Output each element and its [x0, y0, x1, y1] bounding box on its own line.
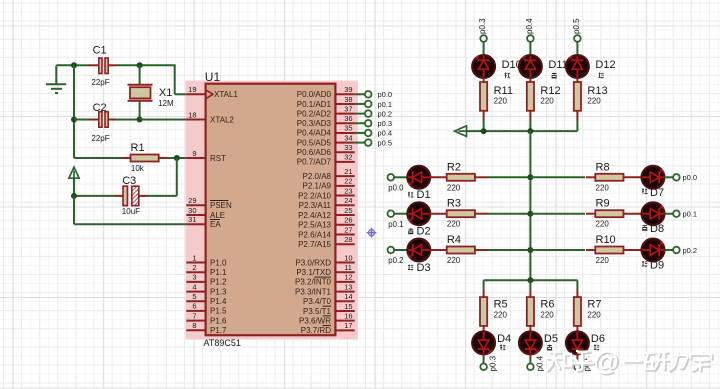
junction node xtal top — [137, 62, 143, 68]
svg-text:p0.0: p0.0 — [378, 90, 393, 99]
svg-text:P3.6/WR: P3.6/WR — [299, 316, 331, 325]
pin R1 left — [122, 157, 131, 159]
svg-text:p0.4: p0.4 — [535, 355, 544, 371]
LED D9 — [642, 239, 665, 262]
wire down to resistor — [483, 280, 485, 290]
svg-text:24: 24 — [344, 196, 352, 205]
svg-text:P1.0: P1.0 — [210, 258, 227, 267]
wire to terminal — [529, 359, 531, 364]
svg-text:D2: D2 — [417, 226, 431, 238]
LED D5 — [519, 332, 542, 355]
pin resistor left — [586, 249, 595, 251]
svg-text:22pF: 22pF — [91, 134, 109, 143]
wire crystal node to XTAL1 corner — [140, 64, 176, 66]
svg-text:P3.2/INT0: P3.2/INT0 — [295, 278, 332, 287]
pin 2 (P1.1) — [186, 263, 227, 277]
pin 12 (P3.2/INT0) — [295, 273, 355, 287]
wire to terminal — [483, 359, 485, 364]
label green colour char — [598, 73, 603, 79]
terminal p0.1 — [365, 101, 372, 108]
resistor R6 — [527, 297, 534, 326]
terminal p0.3 (top) — [480, 35, 487, 42]
pin 25 (P2.4/A12) — [298, 206, 355, 220]
svg-text:10uF: 10uF — [122, 207, 140, 216]
svg-text:P2.3/A11: P2.3/A11 — [299, 201, 332, 210]
pin 9 (RST) — [186, 149, 226, 163]
pin LED-resistor — [529, 78, 531, 82]
svg-text:D7: D7 — [650, 187, 664, 199]
pin 17 (P3.7/RD) — [301, 321, 355, 335]
svg-text:220: 220 — [596, 220, 610, 229]
LED D10 — [472, 55, 495, 78]
svg-text:220: 220 — [494, 311, 508, 320]
wire bus to resistor — [530, 213, 585, 215]
wire R1 to RST — [167, 157, 186, 159]
svg-text:D6: D6 — [591, 333, 605, 345]
svg-text:P2.1/A9: P2.1/A9 — [303, 182, 332, 191]
wire P0.5 to terminal — [355, 142, 365, 144]
svg-text:p0.2: p0.2 — [378, 109, 393, 118]
svg-text:C3: C3 — [122, 175, 136, 187]
junction node xtal bottom — [137, 117, 143, 123]
svg-text:p0.3: p0.3 — [378, 119, 393, 128]
svg-text:EA: EA — [210, 220, 221, 229]
wire centre bus vertical — [529, 131, 531, 280]
svg-text:33: 33 — [344, 143, 352, 152]
wire to XTAL1 pin — [175, 93, 187, 95]
pin resistor bottom — [529, 111, 531, 120]
pin C3 left — [115, 195, 123, 197]
svg-text:p0.4: p0.4 — [525, 18, 534, 34]
svg-text:220: 220 — [596, 256, 610, 265]
label green colour char — [594, 345, 599, 351]
wire crystal to XTAL2 node — [139, 101, 141, 120]
pin resistor top — [529, 290, 531, 297]
svg-text:ALE: ALE — [210, 211, 225, 220]
wire terminal to LED — [394, 213, 408, 215]
wire C1 to crystal node — [116, 64, 140, 66]
wire P0.0 to terminal — [355, 93, 365, 95]
svg-text:3: 3 — [192, 273, 196, 282]
pin resistor right — [475, 176, 487, 178]
terminal p0.2 — [365, 110, 372, 117]
pin 18 (XTAL2) — [186, 110, 234, 124]
svg-text:23: 23 — [344, 186, 352, 195]
pin R1 right — [159, 157, 167, 159]
svg-text:P2.0/A8: P2.0/A8 — [303, 172, 332, 181]
wire to EA pin — [74, 223, 186, 225]
svg-text:P2.2/A10: P2.2/A10 — [298, 191, 331, 200]
LED D4 — [472, 332, 495, 355]
svg-text:D4: D4 — [497, 333, 511, 345]
svg-text:P1.7: P1.7 — [210, 326, 227, 335]
svg-text:D8: D8 — [650, 223, 664, 235]
capacitor C3 (electrolytic) — [123, 186, 128, 205]
svg-text:220: 220 — [447, 183, 461, 192]
pin 14 (P3.4/T0) — [303, 292, 355, 306]
wire gnd rail — [73, 65, 75, 158]
svg-text:7: 7 — [192, 311, 196, 320]
junction vcc node — [71, 193, 77, 199]
pin resistor to LED — [576, 326, 578, 332]
wire vcc node down — [73, 196, 75, 224]
terminal p0.1 (left) — [388, 210, 395, 217]
svg-text:P0.3/AD3: P0.3/AD3 — [297, 119, 332, 128]
svg-text:25: 25 — [344, 206, 352, 215]
pin resistor right — [475, 249, 487, 251]
pin LED to resistor — [430, 249, 447, 251]
svg-text:29: 29 — [188, 196, 196, 205]
svg-text:XTAL2: XTAL2 — [210, 115, 234, 124]
pin 29 (PSEN) — [186, 196, 232, 210]
pin resistor right — [475, 213, 487, 215]
svg-text:9: 9 — [192, 149, 196, 158]
svg-text:p0.2: p0.2 — [683, 246, 698, 255]
svg-text:10k: 10k — [131, 164, 145, 173]
svg-text:D1: D1 — [417, 189, 431, 201]
op U1 chip body AT89C51 — [206, 84, 336, 336]
pin 10 (P3.0/RXD) — [295, 253, 354, 267]
pin resistor left — [586, 213, 595, 215]
pin 35 (P0.4/AD4) — [297, 124, 355, 138]
LED D1 — [407, 166, 430, 189]
wire to terminal — [576, 359, 578, 364]
label yellow colour char — [408, 228, 413, 234]
pin 8 (P1.7) — [186, 321, 227, 335]
svg-text:p0.4: p0.4 — [378, 129, 393, 138]
resistor R3 — [447, 210, 475, 217]
pin 1 (P1.0) — [186, 253, 227, 267]
svg-text:P1.1: P1.1 — [210, 268, 227, 277]
pin LED to resistor — [430, 176, 447, 178]
pin 7 (P1.6) — [186, 311, 227, 325]
pin 21 (P2.0/A8) — [303, 167, 355, 181]
svg-text:P1.3: P1.3 — [210, 287, 227, 296]
pin resistor to LED — [624, 213, 642, 215]
svg-text:P1.5: P1.5 — [210, 307, 227, 316]
wire C3 to vcc node — [74, 195, 115, 197]
pin resistor top — [576, 290, 578, 297]
svg-text:P0.5/AD5: P0.5/AD5 — [297, 138, 332, 147]
resistor R10 — [595, 247, 623, 254]
capacitor C2 — [99, 112, 102, 128]
junction bus — [527, 247, 533, 253]
pin 24 (P2.3/A11) — [299, 196, 355, 210]
wire node to crystal — [139, 65, 141, 85]
svg-text:R9: R9 — [596, 198, 610, 210]
svg-text:220: 220 — [587, 311, 601, 320]
junction top bus col2 — [527, 128, 533, 134]
svg-text:D9: D9 — [650, 260, 664, 272]
junction node gnd rail — [71, 62, 77, 68]
svg-text:P0.2/AD2: P0.2/AD2 — [297, 109, 332, 118]
svg-text:220: 220 — [494, 97, 508, 106]
svg-text:R13: R13 — [587, 85, 607, 97]
wire down to XTAL1 — [174, 65, 176, 94]
LED D8 — [642, 202, 665, 225]
svg-text:18: 18 — [188, 110, 196, 119]
svg-text:31: 31 — [188, 215, 196, 224]
svg-text:35: 35 — [344, 124, 352, 133]
LED D12 — [566, 55, 589, 78]
resistor R8 — [595, 174, 623, 181]
pin 36 (P0.3/AD3) — [297, 114, 355, 128]
wire power to node — [73, 178, 75, 196]
svg-text:1: 1 — [192, 253, 196, 262]
svg-text:p0.0: p0.0 — [388, 184, 404, 193]
resistor R7 — [574, 297, 581, 326]
svg-text:2: 2 — [192, 263, 196, 272]
ground — [46, 65, 66, 93]
svg-text:p0.1: p0.1 — [683, 210, 698, 219]
resistor R2 — [447, 174, 475, 181]
svg-text:14: 14 — [344, 292, 352, 301]
resistor R11 — [480, 82, 487, 111]
pin LED-resistor — [483, 78, 485, 82]
svg-text:R3: R3 — [447, 198, 461, 210]
svg-text:39: 39 — [344, 85, 352, 94]
wire to terminal — [664, 176, 673, 178]
svg-text:220: 220 — [540, 97, 554, 106]
pin 32 (P0.7/AD7) — [297, 153, 355, 167]
svg-text:32: 32 — [344, 153, 352, 162]
svg-text:p0.0: p0.0 — [683, 173, 698, 182]
svg-text:5: 5 — [192, 292, 196, 301]
wire rail to R1 — [74, 157, 122, 159]
label green colour char — [408, 265, 413, 271]
pin 34 (P0.5/AD5) — [297, 133, 355, 147]
terminal p0.4 (bottom) — [527, 364, 534, 371]
svg-text:4: 4 — [192, 282, 196, 291]
pin 6 (P1.5) — [186, 302, 227, 316]
svg-text:37: 37 — [344, 104, 352, 113]
svg-text:U1: U1 — [205, 70, 221, 84]
svg-text:220: 220 — [540, 311, 554, 320]
svg-text:R4: R4 — [447, 234, 461, 246]
wire gnd to node — [56, 64, 74, 66]
power terminal (left arrow) — [455, 126, 467, 137]
svg-text:36: 36 — [344, 114, 352, 123]
power terminal (VCC) — [69, 167, 79, 178]
label yellow colour char — [642, 225, 647, 231]
resistor R1 — [131, 155, 159, 162]
pin C1 right — [107, 64, 116, 66]
svg-text:p0.5: p0.5 — [378, 138, 393, 147]
junction bottom bus — [527, 277, 533, 283]
origin crosshair marker — [367, 228, 377, 238]
wire C2 to node — [116, 119, 140, 121]
terminal p0.0 (left) — [388, 174, 395, 181]
svg-text:p0.3: p0.3 — [478, 18, 487, 34]
label yellow colour char — [547, 345, 552, 351]
svg-text:C2: C2 — [93, 102, 107, 114]
watermark zhihu — [549, 352, 573, 372]
svg-text:P2.5/A13: P2.5/A13 — [298, 221, 331, 230]
svg-text:P3.3/INT1: P3.3/INT1 — [295, 287, 332, 296]
wire top bus horizontal — [466, 130, 578, 132]
resistor R12 — [527, 82, 534, 111]
wire terminal to LED — [483, 42, 485, 56]
svg-text:P0.0/AD0: P0.0/AD0 — [297, 90, 332, 99]
resistor R9 — [595, 210, 623, 217]
pin resistor to LED — [624, 176, 642, 178]
svg-text:R8: R8 — [596, 161, 610, 173]
svg-text:p0.5: p0.5 — [572, 18, 581, 34]
wire P0.1 to terminal — [355, 103, 365, 105]
label red colour char — [642, 188, 648, 194]
svg-text:P3.5/T1: P3.5/T1 — [303, 307, 332, 316]
svg-text:13: 13 — [344, 282, 352, 291]
svg-text:P1.4: P1.4 — [210, 297, 227, 306]
wire bus to resistor — [530, 176, 585, 178]
wire bottom bus horizontal — [484, 279, 578, 281]
pin resistor top — [483, 290, 485, 297]
pin 38 (P0.1/AD1) — [297, 95, 355, 109]
terminal p0.1 (right) — [673, 210, 680, 217]
svg-text:15: 15 — [344, 302, 352, 311]
terminal p0.5 — [365, 139, 372, 146]
resistor R13 — [574, 82, 581, 111]
svg-text:AT89C51: AT89C51 — [204, 338, 241, 348]
wire rail to C2 — [74, 119, 89, 121]
wire terminal to LED — [394, 249, 408, 251]
wire resistor to bus — [576, 120, 578, 131]
wire to terminal — [664, 213, 673, 215]
svg-text:P0.6/AD6: P0.6/AD6 — [297, 148, 332, 157]
pin 33 (P0.6/AD6) — [297, 143, 355, 157]
pin C2 left — [89, 119, 99, 121]
capacitor C1 — [99, 58, 102, 74]
svg-text:28: 28 — [344, 235, 352, 244]
pin C1 left — [89, 64, 99, 66]
svg-text:10: 10 — [344, 253, 352, 262]
pin 23 (P2.2/A10) — [298, 186, 355, 200]
svg-text:P2.6/A14: P2.6/A14 — [298, 230, 331, 239]
LED D3 — [407, 239, 430, 262]
terminal p0.2 (right) — [673, 247, 680, 254]
terminal p0.3 — [365, 120, 372, 127]
terminal p0.5 (bottom) — [574, 364, 581, 371]
junction rail C2 — [71, 117, 77, 123]
label red colour char — [408, 192, 414, 198]
pin C2 right — [107, 119, 116, 121]
terminal p0.2 (left) — [388, 247, 395, 254]
wire to XTAL2 pin — [140, 119, 187, 121]
svg-text:220: 220 — [447, 256, 461, 265]
LED D2 — [407, 202, 430, 225]
svg-text:34: 34 — [344, 133, 352, 142]
svg-text:p0.3: p0.3 — [489, 355, 498, 371]
svg-text:P2.4/A12: P2.4/A12 — [298, 211, 331, 220]
svg-text:220: 220 — [447, 220, 461, 229]
svg-text:12: 12 — [344, 273, 352, 282]
svg-text:D3: D3 — [417, 262, 431, 274]
svg-text:D12: D12 — [595, 59, 615, 71]
pin LED to resistor — [430, 213, 447, 215]
svg-text:P3.4/T0: P3.4/T0 — [303, 297, 332, 306]
pin 3 (P1.2) — [186, 273, 227, 287]
wire down to resistor — [576, 280, 578, 290]
svg-text:PSEN: PSEN — [210, 201, 232, 210]
svg-text:p0.1: p0.1 — [378, 100, 393, 109]
wire terminal to LED — [394, 176, 408, 178]
pin 5 (P1.4) — [186, 292, 227, 306]
wire to C3 — [147, 195, 177, 197]
pin resistor to LED — [624, 249, 642, 251]
terminal p0.5 (top) — [574, 35, 581, 42]
svg-text:P2.7/A15: P2.7/A15 — [298, 240, 331, 249]
resistor R4 — [447, 247, 475, 254]
pin 30 (ALE) — [186, 206, 225, 220]
pin 22 (P2.1/A9) — [303, 177, 355, 191]
pin LED-resistor — [576, 78, 578, 82]
svg-text:XTAL1: XTAL1 — [214, 90, 238, 99]
chip selection highlight — [185, 81, 358, 340]
svg-text:17: 17 — [344, 321, 352, 330]
wire to bus — [487, 176, 530, 178]
svg-text:R6: R6 — [540, 299, 554, 311]
wire to bus — [487, 249, 530, 251]
svg-text:P3.0/RXD: P3.0/RXD — [295, 258, 331, 267]
svg-text:P1.2: P1.2 — [210, 278, 227, 287]
svg-text:22: 22 — [344, 177, 352, 186]
svg-text:38: 38 — [344, 95, 352, 104]
wire P0.3 to terminal — [355, 122, 365, 124]
svg-text:220: 220 — [596, 183, 610, 192]
svg-text:P0.4/AD4: P0.4/AD4 — [297, 129, 332, 138]
pin resistor to LED — [483, 326, 485, 332]
wire to bus — [487, 213, 530, 215]
wire to terminal — [664, 249, 673, 251]
pin 28 (P2.7/A15) — [298, 235, 355, 249]
svg-text:R7: R7 — [587, 299, 601, 311]
svg-text:p0.1: p0.1 — [388, 220, 403, 229]
wire resistor to bus — [483, 120, 485, 131]
wire terminal to LED — [529, 42, 531, 56]
wire terminal to LED — [576, 42, 578, 56]
LED D6 — [566, 332, 589, 355]
svg-text:26: 26 — [344, 216, 352, 225]
svg-text:R5: R5 — [494, 299, 508, 311]
pin 19 (XTAL1) — [186, 85, 238, 99]
pin resistor left — [586, 176, 595, 178]
pin C3 right — [139, 195, 147, 197]
pin LED bottom — [576, 354, 578, 358]
svg-text:22pF: 22pF — [91, 78, 109, 87]
svg-text:19: 19 — [188, 85, 196, 94]
wire P0.2 to terminal — [355, 113, 365, 115]
svg-text:220: 220 — [587, 97, 601, 106]
svg-text:R11: R11 — [494, 85, 513, 97]
svg-text:21: 21 — [344, 167, 352, 176]
label red colour char — [500, 345, 505, 351]
svg-text:@: @ — [593, 346, 619, 376]
wire down to resistor — [529, 280, 531, 290]
LED D7 — [642, 166, 665, 189]
pin 4 (P1.3) — [186, 282, 227, 296]
pin LED bottom — [483, 354, 485, 358]
svg-text:R10: R10 — [596, 234, 616, 246]
svg-text:P0.1/AD1: P0.1/AD1 — [297, 100, 332, 109]
pin 16 (P3.6/WR) — [299, 311, 355, 325]
pin 26 (P2.5/A13) — [298, 216, 355, 230]
pin resistor bottom — [576, 111, 578, 120]
svg-text:8: 8 — [192, 321, 196, 330]
svg-text:27: 27 — [344, 225, 352, 234]
wire resistor to bus — [529, 120, 531, 131]
terminal p0.4 (top) — [527, 35, 534, 42]
svg-text:R1: R1 — [131, 142, 145, 154]
